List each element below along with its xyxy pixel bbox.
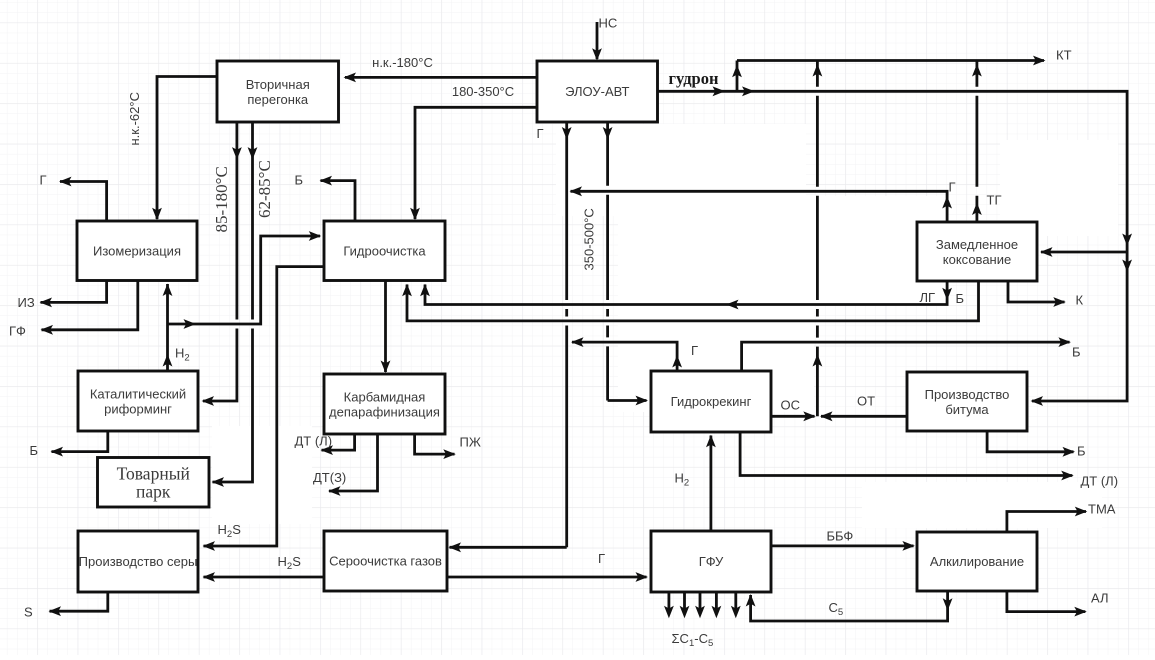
svg-text:ДТ(З): ДТ(З) bbox=[313, 470, 346, 485]
wire 85-180°С to Каталитический риформинг bbox=[202, 122, 242, 406]
svg-text:Сероочистка газов: Сероочистка газов bbox=[329, 554, 442, 569]
label 350-500°С bbox=[582, 208, 597, 270]
wire С5 from Алкилирование to ГФУ bbox=[746, 591, 953, 621]
label Г left of Изомеризация bbox=[40, 173, 47, 188]
block Сероочистка газов bbox=[324, 531, 447, 591]
wire 350-500°С from ЭЛОУ-АВТ to Гидрокрекинг bbox=[603, 122, 648, 405]
wire ТМА out of Алкилирование bbox=[1007, 507, 1087, 532]
label 62-85°С bbox=[255, 160, 274, 218]
block Гидрокрекинг bbox=[651, 371, 771, 432]
wire Г from Замедленное коксование to collector bbox=[570, 186, 953, 222]
wire H2S from Сероочистка газов bbox=[203, 572, 325, 582]
label 180-350°С bbox=[452, 84, 514, 99]
block Производство битума bbox=[907, 372, 1027, 431]
wire H2S from Гидроочистка to Производство серы bbox=[203, 267, 325, 551]
svg-text:ПЖ: ПЖ bbox=[460, 435, 481, 450]
wire Г collector from ЭЛОУ-АВТ to Сероочистка газов bbox=[449, 122, 572, 552]
label ДТ(З) bbox=[313, 470, 346, 485]
label Б left of Каталитический риформинг bbox=[30, 443, 39, 458]
wire ЛГ-Б from Замедленное коксование to Гидроочистка bbox=[420, 281, 952, 309]
wire 62-85°С to Товарный парк bbox=[212, 122, 258, 487]
svg-text:АЛ: АЛ bbox=[1091, 591, 1109, 606]
block Гидроочистка bbox=[324, 221, 445, 281]
wire ΣС1-С5 out of ГФУ bbox=[664, 592, 741, 618]
wire Б out of Гидрокрекинг bbox=[742, 337, 1071, 371]
svg-text:ОТ: ОТ bbox=[857, 394, 875, 409]
wire Б from Замедленное коксование to Гидроочистка bbox=[402, 281, 978, 321]
wire К out of Замедленное коксование bbox=[1008, 281, 1066, 307]
label НС bbox=[599, 16, 618, 31]
wire Б out of Производство битума bbox=[987, 431, 1075, 457]
block ЭЛОУ-АВТ bbox=[537, 61, 658, 122]
wire гудрон branch up to КТ line bbox=[732, 61, 742, 92]
svg-text:Г: Г bbox=[40, 173, 47, 188]
svg-text:ТГ: ТГ bbox=[987, 193, 1002, 208]
svg-text:коксование: коксование bbox=[943, 252, 1011, 267]
wire ДТ(З) out of Карбамидная bbox=[328, 434, 378, 496]
label ОТ bbox=[857, 394, 875, 409]
label н.к.-62°С bbox=[127, 92, 142, 145]
block Алкилирование bbox=[917, 532, 1037, 591]
svg-text:Б: Б bbox=[1072, 345, 1081, 360]
label Б right of Гидрокрекинг bbox=[1072, 345, 1081, 360]
svg-text:Производство: Производство bbox=[925, 387, 1010, 402]
label К bbox=[1076, 293, 1084, 308]
label ТГ bbox=[987, 193, 1002, 208]
label Г above Гидрокрекинг bbox=[691, 343, 698, 358]
block Карбамидная депарафинизация bbox=[324, 374, 445, 434]
svg-text:перегонка: перегонка bbox=[247, 92, 309, 107]
svg-text:Г: Г bbox=[598, 551, 605, 566]
wire КТ product line bbox=[737, 56, 1046, 66]
block Замедленное коксование bbox=[917, 222, 1037, 281]
svg-text:Г: Г bbox=[537, 126, 544, 141]
wire Г out of Гидрокрекинг to collector bbox=[571, 337, 682, 371]
wire ТГ from Замедленное коксование to КТ line bbox=[972, 61, 982, 223]
label S bbox=[24, 605, 33, 620]
svg-text:Изомеризация: Изомеризация bbox=[93, 243, 181, 258]
wire гудрон from ЭЛОУ-АВТ bbox=[657, 86, 1132, 406]
svg-text:85-180°С: 85-180°С bbox=[212, 166, 231, 232]
svg-text:ББФ: ББФ bbox=[827, 529, 854, 544]
label ПЖ bbox=[460, 435, 481, 450]
wire 180-350°С to Гидроочистка bbox=[410, 107, 537, 220]
label H2S upper bbox=[218, 522, 242, 540]
svg-text:Б: Б bbox=[295, 173, 304, 188]
svg-text:Г: Г bbox=[949, 180, 956, 195]
block ГФУ bbox=[651, 531, 771, 592]
svg-text:Б: Б bbox=[956, 291, 965, 306]
svg-text:Производство серы: Производство серы bbox=[79, 554, 198, 569]
wire Б out of Каталитический риформинг bbox=[51, 431, 108, 457]
svg-text:Карбамидная: Карбамидная bbox=[344, 389, 426, 404]
wire ПЖ out of Карбамидная bbox=[415, 434, 456, 459]
wire гудрон branch to Замедленное коксование bbox=[1040, 247, 1127, 257]
wire АЛ out of Алкилирование bbox=[1007, 591, 1087, 616]
wire Г out of Изомеризация bbox=[59, 177, 107, 221]
label КТ bbox=[1056, 48, 1072, 63]
label ББФ bbox=[827, 529, 854, 544]
svg-text:Вторичная: Вторичная bbox=[246, 77, 310, 92]
svg-text:депарафинизация: депарафинизация bbox=[329, 405, 440, 420]
label ДТ (Л) left bbox=[295, 434, 333, 449]
svg-text:ЛГ: ЛГ bbox=[920, 290, 936, 305]
label С5 bbox=[829, 600, 844, 618]
label ИЗ bbox=[18, 295, 35, 310]
svg-text:ЭЛОУ-АВТ: ЭЛОУ-АВТ bbox=[565, 84, 629, 99]
svg-text:Алкилирование: Алкилирование bbox=[930, 554, 1024, 569]
svg-text:К: К bbox=[1076, 293, 1084, 308]
svg-text:ДТ (Л): ДТ (Л) bbox=[295, 434, 333, 449]
wire Гидроочистка to Карбамидная депарафинизация bbox=[381, 280, 391, 373]
wire Б out of Гидроочистка bbox=[320, 176, 356, 221]
svg-text:62-85°С: 62-85°С bbox=[255, 160, 274, 218]
block Товарный парк bbox=[98, 458, 210, 508]
label ΣС1-С5 bbox=[672, 631, 714, 649]
label H2 near Изомеризация bbox=[175, 346, 190, 364]
wire H2 branch to Гидроочистка bbox=[168, 231, 322, 329]
svg-text:350-500°С: 350-500°С bbox=[582, 208, 597, 270]
svg-text:ГФ: ГФ bbox=[9, 324, 26, 339]
svg-text:Б: Б bbox=[1077, 444, 1086, 459]
svg-text:Г: Г bbox=[691, 343, 698, 358]
label ДТ (Л) right bbox=[1081, 474, 1119, 489]
label 85-180°С bbox=[212, 166, 231, 232]
svg-text:НС: НС bbox=[599, 16, 618, 31]
block Изомеризация bbox=[77, 221, 197, 281]
svg-text:Каталитический: Каталитический bbox=[90, 386, 186, 401]
svg-text:битума: битума bbox=[945, 402, 989, 417]
wire H2 from Каталитический риформинг to Изомеризация bbox=[163, 284, 173, 372]
svg-text:ГФУ: ГФУ bbox=[699, 554, 724, 569]
svg-text:ОС: ОС bbox=[781, 398, 801, 413]
svg-text:Гидроочистка: Гидроочистка bbox=[343, 243, 426, 258]
label ЛГ bbox=[920, 290, 936, 305]
block Вторичная перегонка bbox=[217, 61, 339, 122]
label ГФ bbox=[9, 324, 26, 339]
svg-text:КТ: КТ bbox=[1056, 48, 1072, 63]
svg-text:Замедленное: Замедленное bbox=[936, 237, 1018, 252]
wire ГФ out of Изомеризация bbox=[41, 281, 138, 335]
wire ИЗ out of Изомеризация bbox=[40, 281, 107, 307]
wire Г from Сероочистка газов to ГФУ bbox=[447, 572, 648, 582]
label H2S lower bbox=[278, 554, 302, 572]
svg-text:Товарный: Товарный bbox=[117, 463, 190, 483]
label АЛ bbox=[1091, 591, 1109, 606]
wire ОТ from Производство битума bbox=[820, 411, 907, 421]
svg-text:риформинг: риформинг bbox=[104, 402, 172, 417]
label ОС bbox=[781, 398, 801, 413]
svg-text:н.к.-62°С: н.к.-62°С bbox=[127, 92, 142, 145]
wire ДТ (Л) out of Гидрокрекинг bbox=[740, 432, 1074, 480]
svg-text:Гидрокрекинг: Гидрокрекинг bbox=[671, 394, 752, 409]
svg-text:ТМА: ТМА bbox=[1088, 502, 1116, 517]
svg-text:ИЗ: ИЗ bbox=[18, 295, 35, 310]
svg-text:ДТ (Л): ДТ (Л) bbox=[1081, 474, 1119, 489]
label Б right of Производство битума bbox=[1077, 444, 1086, 459]
label гудрон bbox=[669, 69, 719, 88]
wire н.к.-180°С to Вторичная перегонка bbox=[344, 73, 538, 83]
wire н.к.-62°С from Вторичная to Изомеризация bbox=[152, 77, 217, 221]
svg-text:гудрон: гудрон bbox=[669, 69, 719, 88]
svg-text:парк: парк bbox=[136, 481, 171, 501]
wire H2 from ГФУ to Гидрокрекинг bbox=[706, 435, 716, 532]
block Производство серы bbox=[78, 531, 198, 592]
label Б below Замедленное коксование bbox=[956, 291, 965, 306]
svg-text:н.к.-180°С: н.к.-180°С bbox=[372, 55, 433, 70]
white patch bbox=[212, 124, 1118, 528]
label н.к.-180°С bbox=[372, 55, 433, 70]
svg-text:Б: Б bbox=[30, 443, 39, 458]
svg-text:S: S bbox=[24, 605, 33, 620]
label Б above Гидроочистка bbox=[295, 173, 304, 188]
wire S out of Производство серы bbox=[49, 592, 108, 616]
label H2 to Гидрокрекинг bbox=[675, 471, 690, 489]
label Г above Замедленное коксование bbox=[949, 180, 956, 195]
label ТМА bbox=[1088, 502, 1116, 517]
wire ДТ (Л) out of Карбамидная bbox=[321, 434, 355, 455]
label Г below ЭЛОУ-АВТ bbox=[537, 126, 544, 141]
wire ОС-ОТ riser to КТ line bbox=[813, 61, 823, 417]
wire НС feed bbox=[592, 22, 602, 61]
block Каталитический риформинг bbox=[78, 371, 198, 431]
wire ОС out of Гидрокрекинг bbox=[771, 411, 816, 421]
label Г to ГФУ bbox=[598, 551, 605, 566]
svg-text:180-350°С: 180-350°С bbox=[452, 84, 514, 99]
wire ББФ from ГФУ to Алкилирование bbox=[771, 541, 915, 551]
